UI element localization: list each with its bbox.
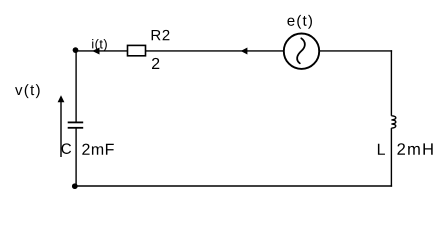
- wire right: top-right corner down to inductor L: [390, 50, 392, 116]
- resistor R2 body: [128, 45, 146, 55]
- label v(t): [15, 84, 40, 98]
- capacitor C top plate: [68, 121, 84, 123]
- label i(t): [92, 39, 107, 51]
- label R2: [152, 30, 170, 40]
- capacitor C bottom plate: [68, 127, 84, 129]
- label L: [378, 144, 385, 155]
- wire bottom: bottom-right corner to bottom-left junction: [75, 185, 392, 187]
- value 2 of R2: [152, 58, 159, 69]
- ac source e(t) circle: [284, 34, 319, 69]
- label e(t): [287, 15, 312, 29]
- current arrowhead i(t) on wire near junction: [92, 48, 99, 55]
- wire top: AC source right to top-right corner: [319, 50, 392, 52]
- inductor L coil: [391, 116, 395, 128]
- ac source sine squiggle: [297, 38, 305, 63]
- wire top: resistor R2 right lead to AC source left: [146, 50, 284, 52]
- wire top: junction to resistor R2 left lead: [76, 50, 128, 52]
- wire right: inductor L to bottom-right corner: [390, 128, 392, 187]
- wire left: top-left junction down to capacitor C top plate: [75, 51, 77, 123]
- wire left: capacitor C bottom plate down to bottom-left junction: [75, 128, 77, 186]
- voltage arrow v(t) shaft: [60, 101, 62, 158]
- node top-left junction dot: [73, 47, 79, 53]
- value 2mH: [397, 143, 432, 155]
- node bottom-left junction dot: [72, 183, 78, 189]
- voltage arrowhead v(t): [58, 95, 65, 102]
- value 2mF: [82, 144, 113, 155]
- current arrowhead mid top wire: [241, 48, 248, 55]
- label C: [62, 143, 71, 154]
